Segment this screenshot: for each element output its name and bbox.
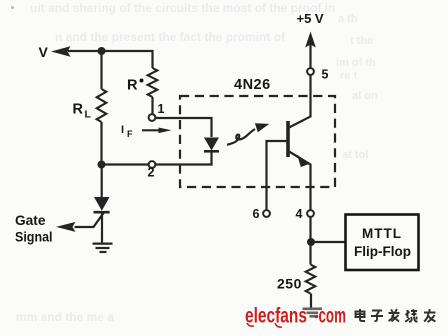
svg-text:Signal: Signal [15, 229, 53, 245]
svg-text:MTTL: MTTL [362, 226, 402, 241]
svg-text:4N26: 4N26 [234, 77, 271, 93]
svg-text:R: R [73, 102, 84, 118]
svg-text:a th: a th [338, 13, 358, 25]
svg-text:Flip-Flop: Flip-Flop [354, 244, 411, 259]
svg-text:250: 250 [277, 276, 302, 292]
svg-text:L: L [85, 109, 92, 121]
svg-text:V: V [39, 44, 49, 60]
svg-text:n and the present the fact the: n and the present the fact the promint o… [55, 30, 286, 44]
svg-text:2: 2 [148, 166, 155, 180]
svg-text:Gate: Gate [15, 212, 46, 228]
svg-text:com: com [319, 305, 347, 328]
svg-text:4: 4 [296, 207, 303, 221]
svg-text:mm and the me a: mm and the me a [16, 310, 114, 324]
svg-text:re t: re t [340, 70, 357, 82]
svg-text:I: I [121, 124, 124, 136]
svg-text:t the: t the [350, 35, 373, 47]
svg-text:1: 1 [158, 102, 165, 116]
svg-text:R: R [127, 78, 138, 94]
svg-text:6: 6 [253, 207, 260, 221]
svg-text:al on: al on [352, 90, 378, 102]
svg-text:im of th: im of th [336, 57, 376, 69]
svg-text:F: F [127, 129, 133, 139]
svg-text:uit and sharing of the circuit: uit and sharing of the circuits the most… [30, 1, 335, 15]
svg-text:5: 5 [322, 68, 329, 82]
svg-text:+5 V: +5 V [297, 11, 324, 26]
svg-text:at tol: at tol [342, 149, 368, 161]
